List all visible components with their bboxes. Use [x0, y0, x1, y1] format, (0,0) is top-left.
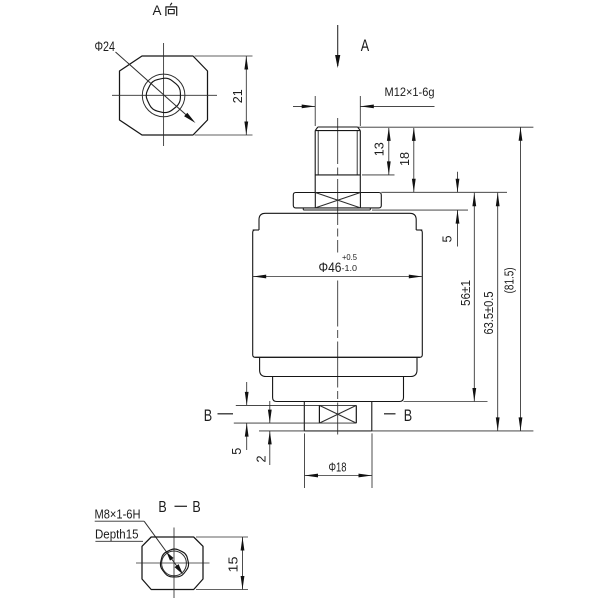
svg-text:(81.5): (81.5) — [502, 267, 517, 293]
svg-text:Depth15: Depth15 — [95, 527, 139, 542]
svg-text:18: 18 — [397, 152, 412, 166]
svg-text:15: 15 — [226, 557, 241, 573]
svg-text:56±1: 56±1 — [458, 280, 473, 306]
svg-text:Φ46: Φ46 — [319, 259, 342, 275]
svg-text:A: A — [153, 2, 163, 18]
svg-text:M8×1-6H: M8×1-6H — [95, 507, 141, 522]
svg-text:13: 13 — [372, 142, 387, 156]
svg-text:A: A — [361, 37, 369, 55]
svg-text:Φ18: Φ18 — [329, 460, 347, 474]
svg-text:5: 5 — [440, 236, 455, 243]
svg-text:B: B — [204, 407, 212, 425]
svg-text:Φ24: Φ24 — [95, 39, 116, 54]
svg-text:2: 2 — [253, 456, 268, 463]
svg-text:21: 21 — [230, 89, 245, 103]
svg-text:B: B — [404, 407, 412, 425]
svg-text:63.5±0.5: 63.5±0.5 — [481, 292, 496, 335]
svg-text:B: B — [192, 499, 200, 516]
svg-text:M12×1-6g: M12×1-6g — [385, 85, 435, 99]
svg-text:5: 5 — [229, 448, 244, 455]
svg-text:B: B — [158, 499, 166, 516]
svg-text:-1.0: -1.0 — [342, 264, 358, 273]
svg-text:+0.5: +0.5 — [342, 253, 358, 262]
